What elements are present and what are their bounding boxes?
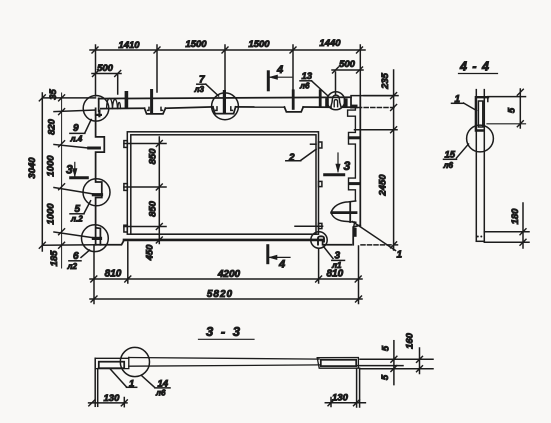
5/5 dim line: [393, 341, 395, 385]
svg-text:500: 500: [339, 59, 356, 70]
right wall outer edge: [359, 97, 361, 226]
svg-text:л2: л2: [67, 262, 78, 271]
left wall edge with notches: [96, 108, 105, 244]
left leg: [94, 358, 96, 406]
inner opening rectangle inner line: [131, 135, 316, 234]
wall outline: top edge: [99, 97, 351, 98]
svg-text:850: 850: [148, 200, 159, 217]
detail circle 9 (top-left corner): [83, 96, 109, 122]
right wall notch bar (lower): [350, 182, 359, 185]
tab ext tick: [311, 143, 317, 145]
black bar at x=157: [150, 89, 153, 115]
svg-text:4 - 4: 4 - 4: [459, 60, 490, 74]
top-left corner rebate: [98, 98, 100, 111]
right 500 dimension: [332, 69, 363, 71]
detail circle 6 (bottom-left corner): [82, 225, 109, 252]
section mark 4 bottom: [266, 246, 269, 263]
tabs on right edge of opening: [319, 142, 322, 148]
bottom overall 5820: [90, 298, 362, 300]
svg-text:5: 5: [380, 374, 391, 380]
svg-text:5820: 5820: [207, 289, 233, 300]
svg-text:500: 500: [97, 63, 114, 74]
svg-text:850: 850: [148, 148, 159, 165]
svg-text:3040: 3040: [27, 157, 38, 179]
black bar at x=126: [125, 91, 129, 109]
top dim ticks: [92, 47, 363, 53]
svg-text:1500: 1500: [248, 39, 270, 50]
svg-text:3 - 3: 3 - 3: [206, 324, 242, 339]
detail circle 7 (top middle): [212, 93, 239, 120]
180 dim (section 4-4): [484, 231, 529, 233]
svg-text:450: 450: [145, 244, 156, 262]
left wall notch2 bar (detail 5): [93, 193, 101, 196]
wall face piece below dome: [354, 222, 355, 228]
svg-text:л6: л6: [443, 161, 454, 170]
svg-text:1500: 1500: [185, 39, 207, 50]
notch 1 in top wall: [145, 108, 166, 114]
left dim chain 35/820/1000/1000/185: [61, 93, 63, 268]
svg-text:л.2: л.2: [70, 215, 83, 224]
detail circle 15: [467, 125, 494, 152]
3040 overall left dim: [41, 93, 43, 251]
svg-text:130: 130: [332, 392, 349, 403]
130 dim right: [325, 402, 365, 404]
svg-text:2450: 2450: [378, 174, 389, 197]
svg-text:1410: 1410: [118, 40, 140, 51]
bottom-left corner bar (detail 6): [93, 237, 100, 240]
black bar at x=225: [223, 90, 226, 114]
arch detail (opening in right wall): [331, 201, 356, 213]
detail circle 14: [120, 347, 149, 376]
svg-text:160: 160: [405, 332, 416, 349]
bottom-left corner rebate (detail 6): [97, 228, 100, 245]
svg-text:1440: 1440: [319, 38, 341, 49]
160 dim line: [419, 348, 421, 374]
detail circle 5 (left wall notch): [83, 179, 110, 206]
bottom edge middle: [124, 239, 323, 242]
svg-text:л6: л6: [155, 389, 166, 398]
black bar at x=320: [319, 89, 322, 106]
right end block outline: [317, 358, 358, 369]
svg-text:9: 9: [73, 123, 79, 134]
svg-text:3: 3: [66, 163, 73, 177]
slab bottom line: [129, 365, 320, 366]
svg-text:1: 1: [397, 250, 403, 261]
right side ext lines: [360, 358, 433, 360]
svg-text:35: 35: [48, 89, 59, 100]
right dim chain 235 / 2450: [393, 70, 395, 250]
right wall notch bar (upper): [349, 136, 358, 139]
detail circle 13 (top right loop): [327, 92, 345, 110]
top-right corner dark tick: [351, 105, 358, 109]
inner 850/850/450 dim chain: [158, 137, 160, 244]
svg-text:180: 180: [510, 208, 521, 225]
detail circle 3 (bottom right): [311, 232, 327, 248]
bracket detail 15: [476, 97, 488, 130]
bottom-right corner notch: [353, 225, 360, 245]
notch 2 in top wall (detail 7): [213, 107, 236, 114]
svg-text:3: 3: [344, 159, 351, 173]
bottom extension lines: [94, 242, 359, 304]
slab top line: [129, 358, 319, 360]
inner opening rectangle outer line: [127, 132, 318, 234]
top dimension line: [90, 49, 365, 51]
left 500 dimension: [92, 73, 121, 75]
bottom edge right part: [323, 240, 352, 245]
lifting loop arcs top-left: [107, 98, 113, 108]
right wall inner face with notches: [348, 108, 356, 201]
svg-text:л3: л3: [194, 85, 205, 94]
dark wall segment right of loop 13: [344, 98, 348, 106]
svg-text:л.4: л.4: [70, 135, 83, 144]
top-right corner rebate: [350, 97, 352, 107]
svg-text:130: 130: [104, 393, 121, 404]
5 dim (section 4-4): [488, 96, 526, 98]
bottom dim line 810/4200/810: [90, 278, 362, 280]
anchor dots: [477, 236, 479, 238]
svg-text:810: 810: [327, 269, 344, 280]
svg-text:1000: 1000: [46, 155, 57, 177]
right block channel (insert): [321, 360, 356, 366]
svg-text:1000: 1000: [46, 203, 57, 225]
black bar at x=293: [292, 89, 295, 109]
section 4-4 wall lines: [475, 90, 477, 242]
extension lines from top dims: [96, 45, 361, 96]
130 dim left: [89, 402, 127, 404]
section mark 4 top: [267, 72, 270, 90]
left end block outline: [95, 357, 129, 368]
svg-text:810: 810: [105, 269, 122, 280]
lifting loop detail 13: [331, 95, 341, 107]
top wall inner edge with notches: [101, 107, 145, 109]
svg-text:5: 5: [507, 107, 518, 113]
left block channel (insert): [99, 362, 124, 369]
bottom edge left part: [96, 240, 124, 245]
svg-text:4200: 4200: [217, 269, 241, 280]
tabs on left edge of opening: [124, 141, 127, 148]
svg-text:820: 820: [47, 118, 58, 135]
svg-text:185: 185: [49, 250, 60, 267]
right leg: [356, 368, 358, 407]
notch 3 in top wall: [284, 107, 303, 112]
svg-text:235: 235: [380, 72, 391, 90]
left wall notch1 bar: [89, 147, 100, 150]
svg-text:4: 4: [276, 64, 283, 76]
dark wall segment left of loop 13: [325, 98, 329, 106]
ext line bottom right tab: [295, 225, 323, 227]
svg-text:л6: л6: [299, 82, 310, 91]
svg-text:4: 4: [278, 259, 285, 271]
svg-text:2: 2: [288, 153, 295, 164]
svg-text:5: 5: [381, 345, 392, 351]
